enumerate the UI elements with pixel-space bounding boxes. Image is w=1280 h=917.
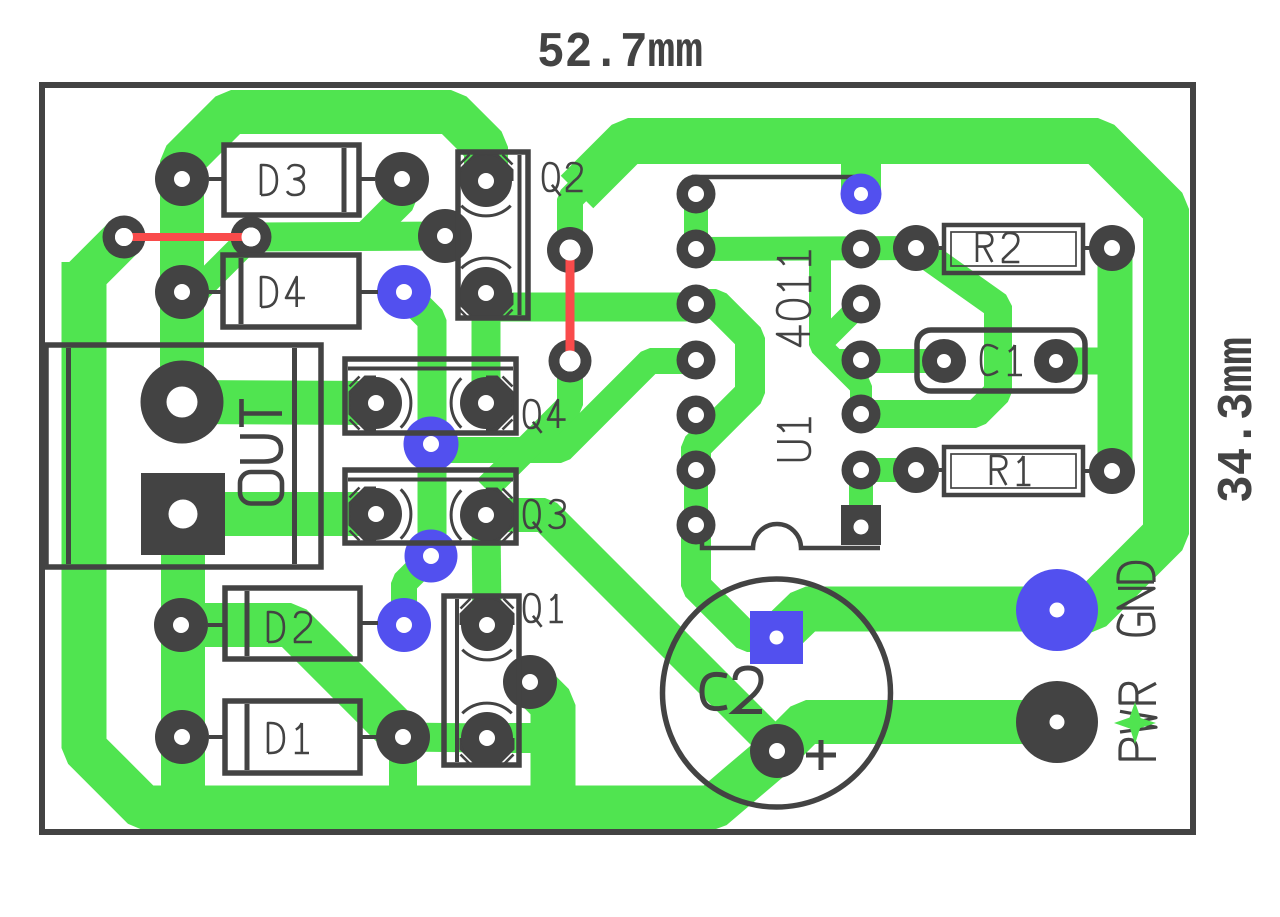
svg-text:52.7mm: 52.7mm <box>537 25 703 82</box>
svg-text:34.3mm: 34.3mm <box>1210 337 1267 503</box>
